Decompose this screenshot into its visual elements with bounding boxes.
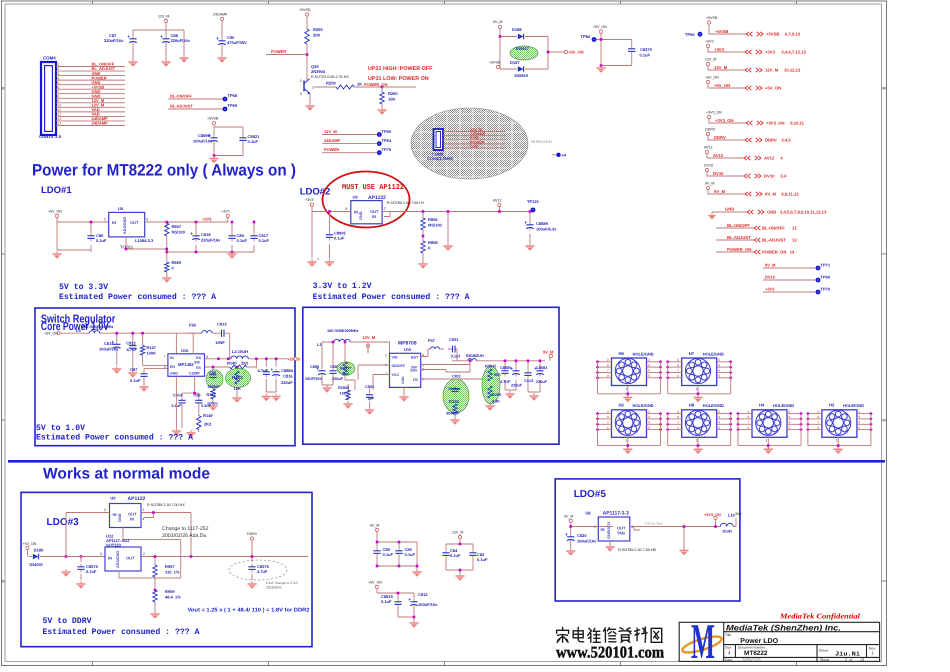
svg-text:+5V_ON: +5V_ON [44, 332, 58, 336]
inductor F57 [428, 338, 439, 349]
svg-text:220uF: 220uF [281, 380, 293, 385]
svg-text:3.3nF: 3.3nF [201, 404, 212, 408]
svg-text:+5V_ON: +5V_ON [48, 210, 62, 214]
inductor L1 [317, 339, 350, 347]
svg-text:+3V3_ON: +3V3_ON [706, 111, 722, 115]
capacitor C85 [228, 233, 247, 243]
junction [195, 251, 198, 254]
svg-text:2K2: 2K2 [204, 421, 212, 426]
connector H3 HOLE/GND [822, 403, 864, 438]
svg-text:1uF: 1uF [368, 397, 375, 401]
svg-text:R2047: R2047 [485, 365, 496, 369]
svg-text:12V_M: 12V_M [452, 531, 463, 535]
IC U6 AP1117-3.3 [585, 511, 629, 542]
svg-text:5V to 1.0V: 5V to 1.0V [36, 424, 85, 433]
svg-text:5: 5 [58, 81, 60, 85]
svg-text:2: 2 [648, 410, 650, 414]
svg-text:0.1uF: 0.1uF [86, 569, 97, 574]
capacitor C812 [129, 343, 136, 352]
resistor R959 [153, 589, 181, 602]
svg-text:R857: R857 [172, 224, 182, 229]
svg-text:1: 1 [836, 439, 838, 443]
svg-text:8: 8 [817, 415, 819, 419]
dashed ellipse around C8576 [229, 560, 287, 580]
svg-text:C812: C812 [418, 592, 428, 597]
svg-text:C8885: C8885 [500, 366, 511, 370]
marking ellipse R152 [443, 379, 469, 413]
svg-text:8: 8 [677, 415, 679, 419]
svg-text:10uH: 10uH [722, 529, 732, 534]
svg-text:VCC: VCC [392, 373, 400, 377]
IC U9 AP1122 LDO3 [110, 496, 146, 528]
wire +5V_ON caps [377, 589, 414, 621]
svg-text:2005/1/25: 2005/1/25 [742, 657, 761, 662]
junction [265, 358, 268, 361]
svg-text:DDRV: DDRV [714, 135, 726, 140]
svg-text:12V_M: 12V_M [363, 335, 376, 340]
ground U6 tab [605, 544, 614, 552]
svg-text:TP64: TP64 [382, 138, 392, 143]
ground under H8 [693, 446, 702, 454]
svg-text:+3V3: +3V3 [221, 210, 230, 214]
connector H7 HOLE/GND [682, 351, 724, 386]
svg-text:IN: IN [170, 356, 174, 360]
svg-text:0.1uF change to 4.7uF: 0.1uF change to 4.7uF [266, 581, 298, 585]
power pin 5V_M mid [370, 524, 379, 532]
junction [600, 64, 603, 67]
wire 24DAMP to C90 [221, 21, 223, 56]
svg-text:0.1uF: 0.1uF [237, 238, 248, 243]
svg-text:AV12: AV12 [493, 199, 502, 203]
box Switch Regulator Core Power 1.0V [35, 308, 295, 446]
svg-text:BL-ON/OFF: BL-ON/OFF [727, 223, 750, 228]
svg-text:9: 9 [817, 410, 819, 414]
svg-text:COMP: COMP [189, 372, 200, 376]
wire COM4 pin 1 net BL_ON/OFF [56, 62, 125, 67]
junction [499, 35, 502, 38]
svg-text:L4 10UH: L4 10UH [232, 349, 248, 354]
junction [275, 358, 278, 361]
svg-text:+3V3: +3V3 [202, 216, 212, 221]
connector H8 HOLE/GND [682, 403, 724, 438]
junction [376, 565, 379, 568]
svg-text:BL-ON/OFF: BL-ON/OFF [170, 94, 192, 99]
inductor L16 [720, 523, 733, 526]
svg-text:0.1uF: 0.1uF [96, 238, 107, 243]
ground under C8896 [209, 156, 218, 164]
ground box2 input [322, 385, 331, 393]
svg-text:9: 9 [677, 358, 679, 362]
svg-text:4: 4 [728, 651, 731, 656]
svg-text:Works at normal mode: Works at normal mode [43, 466, 210, 483]
junction [539, 360, 542, 363]
capacitor C88 [161, 33, 191, 45]
svg-text:2: 2 [648, 358, 650, 362]
svg-text:H3: H3 [829, 403, 835, 408]
svg-text:+3V3_ON: +3V3_ON [715, 118, 734, 123]
text size and docnum row [725, 646, 875, 658]
svg-text:C914: C914 [173, 394, 183, 398]
box LDO#5 [555, 479, 740, 601]
wire 12V_M to caps [133, 23, 184, 56]
junction [166, 248, 169, 251]
svg-text:LDO#5: LDO#5 [574, 489, 607, 500]
svg-text:BS: BS [196, 356, 202, 360]
ground under H3 [834, 446, 843, 454]
node +3V3_ON off-page connector [706, 111, 805, 126]
power pin +3V3 LDO2 [305, 198, 314, 206]
node BL-ON/OFF off-page connector [716, 223, 797, 231]
test point TP69 [816, 275, 831, 283]
svg-text:8: 8 [607, 415, 609, 419]
svg-text:2: 2 [143, 508, 145, 512]
power pin 24DAMP [213, 13, 228, 21]
junction [193, 392, 196, 395]
power pin +5V_ON LDO3 [26, 546, 29, 549]
capacitor box2 220uF a [511, 367, 520, 376]
svg-text:GND/ADJ: GND/ADJ [607, 522, 611, 539]
resistor R2047 [488, 369, 492, 381]
svg-text:GND: GND [170, 372, 178, 376]
svg-text:1: 1 [625, 439, 627, 443]
capacitor C98 [195, 398, 202, 407]
power pin +5V_ON box1 [57, 332, 60, 335]
svg-text:6: 6 [748, 426, 750, 430]
svg-text:5: 5 [718, 426, 720, 430]
svg-text:IN: IN [130, 517, 134, 522]
watermark url text [556, 643, 664, 662]
ground under C87 [128, 59, 137, 67]
text 4.7uF change note [266, 581, 298, 590]
svg-text:AP1117-3.3: AP1117-3.3 [603, 511, 629, 517]
capacitor box2 4.7UF [501, 368, 508, 377]
capacitor C84 [442, 548, 461, 559]
svg-text:GND: GND [767, 210, 776, 215]
diode D187 1N5819 [518, 66, 524, 72]
capacitor C808 [366, 392, 373, 401]
wire +5V_ON decouple C8379 [597, 33, 632, 65]
junction [398, 565, 401, 568]
svg-text:0.1uF: 0.1uF [259, 238, 270, 243]
ground under C88 [161, 59, 170, 67]
svg-text:+3V3: +3V3 [765, 287, 775, 292]
svg-text:0.1uF: 0.1uF [450, 553, 461, 558]
svg-text:3: 3 [594, 525, 596, 529]
svg-text:HOLE/GND: HOLE/GND [703, 403, 724, 408]
capacitor C89 [373, 547, 393, 557]
diode D189 1N4001 [29, 548, 66, 568]
svg-text:12V_M: 12V_M [714, 65, 728, 70]
wire D188 to +5V_ON node [500, 37, 548, 70]
junction POWER_ON [381, 86, 384, 89]
svg-text:13: 13 [790, 250, 795, 255]
svg-text:C814: C814 [104, 341, 114, 346]
capacitor C8884 [271, 368, 280, 377]
svg-text:Document Number: Document Number [738, 646, 766, 650]
svg-text:BL-ADJUST: BL-ADJUST [170, 104, 193, 109]
svg-text:HOLE/GND: HOLE/GND [633, 351, 654, 356]
svg-text:100uF/10v: 100uF/10v [193, 139, 213, 144]
power pin +3V3 LDO1 [221, 210, 230, 218]
svg-text:Date:: Date: [725, 658, 733, 662]
wire box2 ON/OFF VCC [355, 365, 404, 395]
svg-text:R957: R957 [165, 564, 175, 569]
svg-text:5: 5 [858, 426, 860, 430]
svg-text:3: 3 [718, 363, 720, 367]
svg-text:Size: Size [725, 646, 731, 650]
box switch regulator 2 [303, 307, 559, 444]
svg-text:MUST USE AP1122: MUST USE AP1122 [342, 183, 404, 192]
wire box2 input [322, 342, 390, 385]
svg-text:R-SOT89-2.30-7.00-HX: R-SOT89-2.30-7.00-HX [147, 503, 185, 507]
svg-text:3: 3 [858, 415, 860, 419]
junction [166, 221, 169, 224]
svg-text:IN: IN [112, 220, 116, 225]
ground under H7 [693, 395, 702, 403]
junction [469, 360, 472, 363]
svg-text:2: 2 [384, 207, 386, 211]
svg-text:0.1uF: 0.1uF [381, 599, 392, 604]
svg-text:HOLE/GND: HOLE/GND [633, 403, 654, 408]
junction [422, 235, 425, 238]
ground LDO2 input [307, 259, 316, 267]
wire COM4 pin 13 net 24DAMP [56, 116, 125, 121]
resistor R152 [453, 404, 457, 414]
svg-text:12: 12 [58, 113, 62, 117]
wire CON8 nets [443, 128, 505, 149]
diode D188 1N5817 [518, 34, 524, 40]
junction [416, 565, 419, 568]
text LDO1 voltage note [59, 283, 216, 302]
svg-text:7: 7 [607, 369, 609, 373]
svg-text:3: 3 [648, 415, 650, 419]
svg-text:2: 2 [718, 358, 720, 362]
junction [627, 444, 630, 447]
svg-text:www.520101.com: www.520101.com [556, 643, 664, 662]
resistor R859 [165, 260, 182, 272]
svg-text:3.3V to 1.2V: 3.3V to 1.2V [313, 282, 372, 291]
svg-text:10K: 10K [388, 97, 395, 102]
ground 5V_M caps [412, 569, 421, 577]
svg-text:4.3K: 4.3K [492, 400, 500, 404]
svg-text:TP68: TP68 [228, 93, 238, 98]
svg-text:0.1uF: 0.1uF [334, 236, 345, 241]
svg-text:+3V3: +3V3 [765, 50, 776, 55]
svg-text:2: 2 [789, 410, 791, 414]
junction bracket gnd [213, 154, 216, 157]
svg-text:9V_M: 9V_M [765, 192, 776, 197]
test point TP68 [223, 93, 238, 101]
svg-text:C: C [883, 418, 886, 423]
text date row [725, 657, 864, 662]
svg-text:5: 5 [648, 374, 650, 378]
ground LDO1 caps [227, 251, 236, 259]
svg-text:+5VSD: +5VSD [299, 8, 311, 12]
svg-text:R147: R147 [146, 345, 156, 350]
svg-text:HOLE/GND: HOLE/GND [773, 403, 794, 408]
svg-text:3: 3 [146, 218, 148, 222]
svg-text:+5V_ON: +5V_ON [23, 542, 37, 546]
svg-text:R140: R140 [227, 361, 237, 366]
resistor R266 [488, 386, 492, 398]
wire H3 stubs [806, 410, 873, 449]
svg-text:U9: U9 [110, 496, 116, 501]
junction [190, 555, 193, 558]
svg-text:7: 7 [677, 369, 679, 373]
capacitor C86 [87, 233, 107, 243]
svg-text:10NF: 10NF [215, 340, 225, 345]
ground under C8576 [247, 581, 256, 589]
ground under U10 [399, 394, 408, 402]
wire LDO1 input [57, 218, 109, 252]
svg-text:13: 13 [792, 238, 797, 243]
svg-text:Estimated Power consumed : ???: Estimated Power consumed : ??? A [313, 292, 470, 302]
svg-text:CON14_2.5: CON14_2.5 [39, 134, 62, 139]
marking ellipse R2037 [337, 362, 355, 375]
wire box2 output rail [505, 358, 550, 393]
svg-text:+3V3_ON: +3V3_ON [704, 513, 721, 517]
svg-text:R152: R152 [449, 399, 460, 404]
hatched ellipse highlight [411, 108, 528, 179]
wire box2 BST branch [421, 349, 545, 372]
svg-text:2: 2 [104, 218, 106, 222]
svg-text:C885: C885 [310, 365, 319, 369]
connector COM4 CON14_2.5 [39, 56, 62, 140]
ground out caps 1 [262, 394, 271, 402]
svg-text:9V_M: 9V_M [705, 182, 714, 186]
capacitor C80 [395, 547, 415, 557]
IC U12 AP1117-ADJ [105, 534, 141, 572]
wire LDO5 GND pin [598, 527, 613, 547]
power pin +5V_ON output [564, 50, 567, 53]
svg-text:7: 7 [817, 421, 819, 425]
ground under H2 [623, 446, 632, 454]
svg-text:50K: 50K [494, 373, 501, 377]
power pin 12V_M top-left [158, 15, 169, 23]
svg-text:AP1122: AP1122 [128, 496, 146, 502]
svg-text:3V3: 3V3 [735, 512, 741, 516]
svg-text:BL-ADJUST: BL-ADJUST [727, 235, 751, 240]
junction [697, 393, 700, 396]
wire U4 adj [126, 236, 167, 262]
svg-text:H8: H8 [689, 403, 695, 408]
svg-text:H6: H6 [619, 351, 625, 356]
capacitor C8821 [239, 134, 260, 144]
svg-text:C931: C931 [449, 337, 459, 342]
wire COM4 pin 5 net GND [56, 80, 125, 85]
test point e4 [552, 152, 567, 157]
resistor R149 [197, 416, 201, 430]
svg-text:Estimated Power consumed : ???: Estimated Power consumed : ??? A [43, 627, 200, 637]
svg-text:7: 7 [385, 372, 387, 376]
capacitor C820 [565, 533, 574, 542]
svg-text:5V to 3.3V: 5V to 3.3V [59, 283, 108, 292]
svg-text:HOLE/GND: HOLE/GND [843, 403, 864, 408]
svg-text:C87: C87 [130, 367, 138, 372]
wire box1 COMP path [182, 376, 199, 432]
ground box2 out a [505, 391, 514, 399]
ground under Q29 [305, 103, 314, 111]
node +5VSB off-page connector [706, 16, 801, 36]
wire COM4 pin 9 net 12V_M [56, 98, 125, 103]
junction [332, 341, 335, 344]
svg-text:U6: U6 [585, 511, 591, 516]
svg-text:MP8708: MP8708 [398, 341, 417, 347]
svg-text:R260: R260 [388, 91, 398, 96]
svg-text:24DAMP: 24DAMP [213, 13, 228, 17]
ground under R266 [485, 403, 494, 411]
svg-text:0.1uF: 0.1uF [477, 557, 488, 562]
resistor R147 [140, 345, 156, 356]
svg-text:5: 5 [789, 426, 791, 430]
power pin 12V_M mid [452, 531, 463, 539]
wire LDO2 output [382, 207, 530, 263]
capacitor C914 [178, 398, 185, 407]
test point TP75 [377, 147, 392, 155]
svg-text:4: 4 [58, 76, 60, 80]
wire box1 EN row [144, 368, 168, 385]
power pin +3V3_ON LDO5 [714, 516, 717, 519]
svg-text:1K: 1K [357, 82, 362, 87]
svg-text:BL-ON/OFF: BL-ON/OFF [762, 226, 785, 231]
svg-text:10,12,13: 10,12,13 [784, 68, 801, 73]
svg-text:+5V_ON: +5V_ON [593, 25, 607, 29]
inductor L5 [76, 328, 100, 333]
wire box1 GND pin [175, 376, 177, 428]
junction [328, 210, 331, 213]
marking ellipse C88 390NF [206, 370, 223, 388]
ground under R152 [450, 417, 459, 425]
capacitor C8815 [381, 594, 402, 608]
svg-text:1: 1 [385, 354, 387, 358]
svg-text:Title: Title [725, 633, 731, 637]
svg-text:L1084-3.3: L1084-3.3 [135, 238, 154, 243]
svg-text:ADJ/GND: ADJ/GND [116, 551, 120, 568]
svg-text:1: 1 [58, 63, 60, 67]
svg-text:R259: R259 [313, 27, 323, 32]
svg-text:POWER: POWER [324, 147, 339, 152]
IC U9 AP1122 LDO2 [351, 195, 386, 224]
wire H4 stubs [736, 410, 803, 449]
svg-text:9V_M: 9V_M [564, 514, 573, 518]
connector H2 HOLE/GND [612, 403, 654, 438]
resistor R259 [305, 27, 324, 44]
svg-text:+3V3: +3V3 [705, 40, 714, 44]
svg-text:2: 2 [845, 658, 847, 662]
test point TP66 [685, 32, 702, 37]
node 9V_M off-page connector [705, 182, 799, 197]
svg-text:+5V_ON: +5V_ON [765, 86, 781, 91]
svg-text:2: 2 [718, 410, 720, 414]
wire BL-ADJUST to TP69 [168, 104, 223, 110]
svg-text:3,4: 3,4 [780, 174, 786, 179]
svg-text:220uF/16v: 220uF/16v [171, 38, 191, 43]
text title row [725, 633, 779, 645]
svg-text:20K: 20K [313, 33, 320, 38]
junction [683, 525, 686, 528]
junction +5V_ON out [547, 51, 550, 54]
svg-text:C8884: C8884 [281, 368, 294, 373]
svg-text:COM4: COM4 [43, 56, 56, 61]
svg-text:IN: IN [601, 527, 605, 532]
power pin +5V_ON tp [593, 25, 607, 33]
wire POWER to TP75 [322, 147, 377, 153]
svg-text:+5V_ON: +5V_ON [705, 76, 719, 80]
svg-text:100uF/10v: 100uF/10v [418, 602, 438, 607]
svg-text:C98: C98 [194, 394, 201, 398]
wire COM4 pin 7 net GND [56, 89, 125, 94]
junction POWER node [306, 53, 309, 56]
